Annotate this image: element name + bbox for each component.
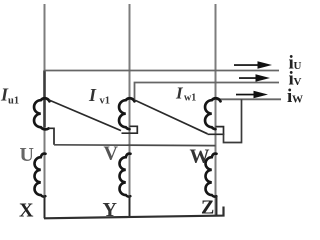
svg-text:v1: v1 [100,96,111,107]
phase line V (vertical) [129,4,131,217]
winding W1 (upper coil, phase W) [205,98,220,129]
wire: phase U drop segment to coil U1 top [43,71,46,128]
winding W2 (lower coil, phase W) [205,154,216,197]
arrow i_W [236,91,268,98]
wire: bottom bus X-Y-Z [44,207,224,219]
svg-text:U: U [20,144,34,166]
connector box at W1 bottom [208,127,224,135]
svg-text:w1: w1 [184,93,196,104]
wire: step from U1 bottom down to delta link [49,128,55,145]
wire: slant U1 top to V1 bottom [49,100,121,131]
wire: slant V1 top to W1 bottom [135,100,208,134]
phase line U (vertical) [44,4,46,218]
arrow i_V [239,74,270,81]
svg-text:Y: Y [103,199,118,221]
wire: output line i_U [45,70,280,72]
svg-text:V: V [294,76,302,88]
winding U1 (upper coil, phase U) [34,98,49,129]
wire: W1 bottom loop out to i_W line [224,99,242,142]
wire: W2 bottom to bus [216,196,218,216]
winding U2 (lower coil, phase U) [34,154,45,197]
wire: output line i_V with drop leg to coil V1 top [135,83,280,100]
wire: U2 bottom to bus [44,196,46,219]
svg-text:X: X [19,200,34,222]
svg-text:Z: Z [201,197,214,219]
svg-text:u1: u1 [8,96,19,107]
wire: output line i_W [216,98,281,100]
winding V2 (lower coil, phase V) [119,154,130,197]
phase line W (vertical) [215,4,217,216]
svg-text:I: I [175,84,184,103]
wire: V2 bottom to bus [129,196,131,218]
svg-text:U: U [294,60,302,72]
svg-text:W: W [292,94,303,106]
winding V1 (upper coil, phase V) [119,98,134,129]
connector box at V1 bottom [122,126,138,133]
arrow i_U [234,61,272,68]
svg-text:I: I [88,85,97,105]
svg-text:V: V [104,143,119,165]
wire: delta link horizontal [54,144,216,147]
svg-text:W: W [190,146,210,168]
